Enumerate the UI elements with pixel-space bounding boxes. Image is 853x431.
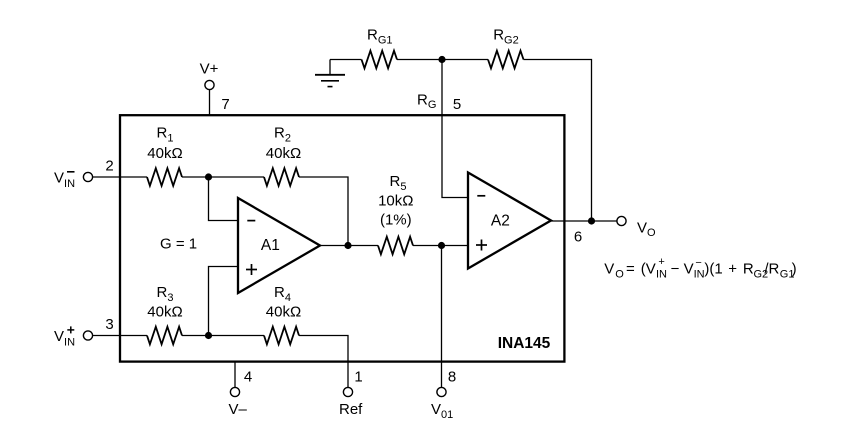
svg-text:2: 2 [105,158,113,175]
wire ground to RG1 [330,59,362,61]
wire VIN+ to R3 [93,335,147,337]
resistor RG1 [362,51,398,69]
svg-text:8: 8 [448,368,456,385]
svg-text:40kΩ: 40kΩ [266,145,301,162]
wire RG1 to node [397,59,442,61]
terminal VO [617,216,626,225]
svg-text:V–: V– [229,401,248,418]
wire node B up to A1 plus input [209,267,239,336]
resistor R5 [378,237,413,255]
ground [315,60,345,87]
wire A2 output to VO [551,220,617,222]
svg-text:R: R [743,261,754,278]
wire R1 to node [182,176,264,178]
terminal VIN+ [83,331,92,340]
wire node down to pin 8 [441,246,443,388]
svg-text:IN: IN [694,268,705,280]
label VIN+ [54,326,75,348]
terminal VIN- [83,172,92,181]
svg-text:40kΩ: 40kΩ [147,303,182,320]
svg-text:+: + [728,261,737,278]
wire R5 to A2 plus [413,245,468,247]
A2 plus sign [476,240,487,251]
svg-text:A2: A2 [491,212,510,229]
svg-text:O: O [615,268,624,280]
svg-text:IN: IN [656,268,667,280]
svg-text:6: 6 [574,229,582,246]
svg-text:(1%): (1%) [380,212,412,229]
svg-text:4: 4 [244,368,252,385]
resistor R2 [264,168,299,186]
svg-text:/R: /R [764,261,779,278]
resistor R4 [264,327,299,345]
IC box outline INA145 [120,115,564,361]
svg-text:5: 5 [453,96,461,113]
svg-text:40kΩ: 40kΩ [147,145,182,162]
wire RG pin 5 vertical into box to A2 minus [442,60,468,198]
wire A1 output to R5 [320,245,378,247]
node A1 out [344,242,351,249]
A1 plus sign [246,264,257,275]
wire pin 4 [234,361,236,387]
wire node to RG2 [442,59,488,61]
svg-text:INA145: INA145 [498,335,551,352]
node A [205,173,212,180]
svg-text:−: − [695,257,701,269]
terminal V- [230,387,239,396]
A2 minus sign [477,195,485,197]
svg-text:=: = [626,261,635,278]
svg-text:V+: V+ [200,61,219,78]
svg-text:+: + [658,256,664,268]
op-amp A1 [238,198,320,293]
svg-text:−: − [671,261,680,278]
svg-text:(V: (V [641,261,656,278]
svg-text:)(1: )(1 [704,261,722,278]
svg-text:3: 3 [105,316,113,333]
svg-text:40kΩ: 40kΩ [266,303,301,320]
terminal V+ [205,80,214,89]
resistor R1 [147,168,182,186]
svg-text:V: V [684,261,694,278]
formula VO equation [604,256,796,280]
node RG junction [438,56,445,63]
wire R4 to Ref pin 1 [299,336,348,388]
node B [205,332,212,339]
resistor R3 [147,327,182,345]
wire node A down to A1 minus input [209,177,239,221]
svg-text:10kΩ: 10kΩ [378,193,413,210]
A1 minus sign [247,220,255,222]
resistor RG2 [488,51,524,69]
wire R3 to R4 [182,335,264,337]
node R5 out [438,242,445,249]
svg-text:V: V [604,261,614,278]
label VIN- [54,169,75,190]
terminal Ref [343,387,352,396]
svg-text:): ) [792,261,797,278]
wire RG2 to VO node (right, down) [524,60,592,222]
svg-text:7: 7 [221,96,229,113]
svg-text:G = 1: G = 1 [160,235,197,252]
op-amp A2 [468,173,551,269]
svg-text:Ref: Ref [339,401,363,418]
svg-text:1: 1 [354,368,362,385]
node VO [588,217,595,224]
wire VIN- to R1 [93,176,147,178]
wire V+ pin 7 [209,90,211,115]
wire R2 feedback to A1 output node [299,177,348,246]
terminal V01 [437,387,446,396]
svg-text:A1: A1 [261,237,280,254]
